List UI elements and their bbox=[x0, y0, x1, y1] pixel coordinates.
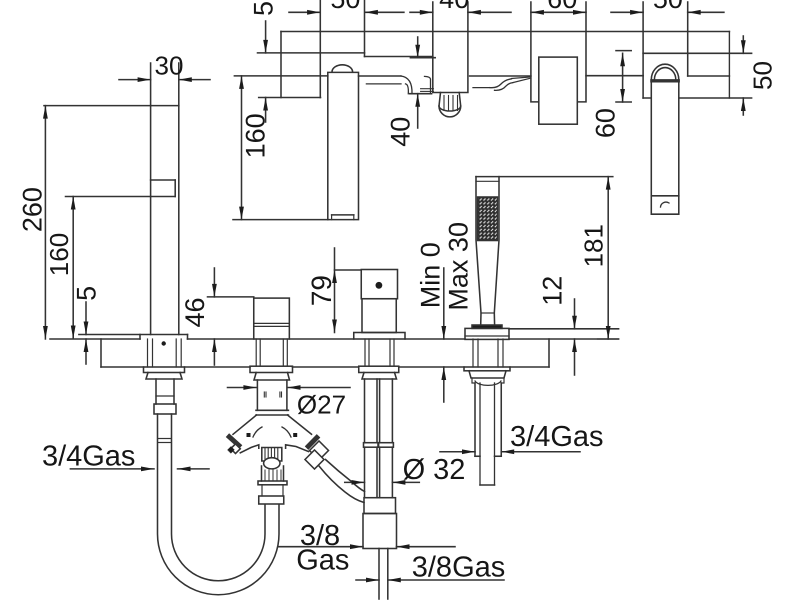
left outlet nub bbox=[228, 446, 235, 453]
comp2 escutcheon below deck bbox=[255, 339, 257, 366]
46 dim bbox=[208, 296, 254, 298]
comp3 valve body bbox=[364, 498, 396, 514]
svg-text:260: 260 bbox=[18, 187, 48, 232]
comp3 twin tubes bbox=[364, 379, 366, 443]
svg-text:50: 50 bbox=[330, 0, 360, 14]
svg-text:79: 79 bbox=[306, 275, 337, 306]
right 50 vertical dim bbox=[742, 36, 744, 53]
wall bar (top view) top edge bbox=[281, 31, 729, 33]
svg-text:40: 40 bbox=[386, 117, 416, 147]
svg-text:50: 50 bbox=[748, 61, 778, 90]
svg-text:50: 50 bbox=[249, 0, 279, 16]
mixer flange bbox=[354, 333, 405, 340]
comp3 tail bbox=[378, 549, 380, 600]
lever escutcheon (top view) bbox=[642, 2, 644, 98]
Min0/Max30 dim bbox=[443, 268, 445, 339]
left block bottom edge bbox=[259, 97, 321, 99]
diverter pull knob bbox=[439, 93, 461, 117]
spout tip notch bbox=[332, 214, 354, 216]
comp4 ear left bbox=[472, 378, 475, 383]
diverter block (top view) + ext lines up bbox=[433, 2, 468, 93]
svg-text:Max 30: Max 30 bbox=[444, 222, 474, 311]
bar front edge segments bbox=[234, 75, 327, 77]
svg-text:30: 30 bbox=[155, 51, 184, 81]
svg-text:3/8Gas: 3/8Gas bbox=[412, 552, 506, 584]
right wing face band bbox=[308, 438, 317, 447]
Y right union (angled) bbox=[310, 441, 329, 460]
Y outlet plate bbox=[258, 481, 287, 485]
260 dim bbox=[44, 105, 151, 107]
deck right edge bbox=[548, 339, 550, 367]
bar inner line left bbox=[258, 52, 365, 54]
181 dim bbox=[598, 338, 619, 340]
40 vertical dim (diverter) bbox=[410, 57, 435, 59]
lever hook mark bbox=[661, 202, 670, 207]
deck bottom edge bbox=[101, 366, 144, 368]
ext line flange top bbox=[509, 328, 619, 330]
30 dim bbox=[119, 79, 151, 81]
svg-text:46: 46 bbox=[180, 297, 210, 327]
hose U spout supply inner bbox=[172, 414, 266, 581]
svg-text:40: 40 bbox=[439, 0, 469, 14]
comp4 nut bbox=[464, 367, 510, 371]
top dim row: 60 bbox=[531, 11, 586, 13]
spout side lever (top view) bbox=[366, 83, 401, 85]
spray face bbox=[478, 197, 498, 241]
comp3 shank below deck bbox=[364, 339, 366, 366]
Y center knurled outlet bbox=[262, 448, 282, 462]
comp2 nut bbox=[250, 366, 293, 372]
spout shank below deck bbox=[147, 339, 149, 367]
spout aerator window bbox=[151, 179, 176, 181]
wand cap line bbox=[476, 180, 499, 182]
wall bar right edge bbox=[728, 32, 730, 99]
spout column bbox=[150, 63, 152, 335]
lever end cap line bbox=[651, 195, 679, 197]
wand end cap bbox=[472, 325, 502, 328]
comp3 nut bbox=[359, 366, 399, 372]
hose U spout supply outer bbox=[158, 414, 280, 595]
stepped inner line bbox=[365, 56, 433, 58]
comp3 taper nut bbox=[362, 373, 397, 380]
comp4 taper nut bbox=[469, 371, 506, 378]
60 vertical dim (handle) bbox=[616, 50, 631, 52]
mixer lever (top view pointer) bbox=[473, 87, 490, 89]
5 dim bbox=[85, 302, 87, 335]
svg-text:181: 181 bbox=[579, 224, 609, 267]
svg-text:60: 60 bbox=[591, 108, 621, 138]
lever cap base bbox=[652, 79, 678, 82]
160 dim front bbox=[66, 196, 151, 198]
top-view 160 dim bbox=[233, 219, 328, 221]
wand grip line bbox=[481, 312, 494, 314]
svg-text:50: 50 bbox=[653, 0, 683, 14]
left outlet square bbox=[231, 444, 241, 454]
Y inner curves and dots bbox=[253, 427, 262, 437]
mixer handle block (top view) + ext lines up bbox=[531, 2, 586, 102]
hose crimp band bbox=[158, 438, 171, 440]
svg-text:Ø 32: Ø 32 bbox=[403, 454, 466, 486]
spout tail nut bbox=[146, 373, 182, 380]
mixer body block bbox=[362, 299, 396, 333]
svg-text:3/4Gas: 3/4Gas bbox=[42, 441, 136, 473]
top dim row: 50 bbox=[289, 11, 320, 13]
deck left edge bbox=[100, 339, 102, 367]
step edge / ext bbox=[364, 0, 366, 57]
spout tip bump bbox=[332, 65, 353, 72]
wall bar left edge bbox=[280, 32, 282, 98]
Y connector neck bbox=[256, 380, 258, 410]
deck screw dot bbox=[162, 341, 166, 345]
svg-text:Ø27: Ø27 bbox=[297, 390, 346, 420]
svg-text:60: 60 bbox=[547, 0, 577, 14]
79 dim bbox=[335, 269, 362, 271]
mixer handle block (comp3 front) bbox=[361, 270, 397, 299]
comp4 ear right bbox=[501, 378, 504, 383]
comp4 nut bottom arc bbox=[475, 381, 501, 385]
top dim row: 50 (2nd) bbox=[611, 11, 643, 13]
Y hose collar bbox=[259, 496, 284, 504]
Y connector right wing bbox=[288, 415, 312, 434]
diverter knob front (comp2) bbox=[254, 298, 290, 339]
svg-text:5: 5 bbox=[72, 286, 102, 301]
ext line for 2nd top 50 dim bbox=[687, 2, 689, 76]
svg-text:160: 160 bbox=[44, 233, 74, 276]
12 dim bbox=[574, 299, 576, 329]
spout tube band bbox=[156, 395, 174, 397]
mixer handle body top view bbox=[539, 57, 578, 124]
spout hose collar bbox=[154, 404, 176, 414]
hose Y to mixer valve bbox=[319, 466, 364, 503]
top dim row: 40 bbox=[410, 11, 433, 13]
left 50 vertical dim bbox=[265, 21, 267, 53]
Y connector collar bbox=[256, 409, 288, 411]
left wing face band bbox=[229, 437, 239, 446]
comp2 taper nut bbox=[254, 373, 290, 381]
svg-text:Gas: Gas bbox=[296, 545, 349, 577]
spout lock nut bbox=[144, 367, 185, 373]
spout (top view) bbox=[328, 72, 359, 219]
svg-text:Min 0: Min 0 bbox=[416, 242, 446, 308]
spout flange bbox=[79, 334, 188, 336]
lever body fill bbox=[651, 64, 679, 214]
lever cap inner arc bbox=[654, 68, 675, 80]
left block right edge / ext bbox=[319, 0, 321, 98]
deck plate top edge bbox=[50, 338, 140, 340]
Y connector left wing bbox=[233, 415, 257, 434]
Ø27 dim bbox=[228, 387, 257, 389]
hand shower wand bbox=[476, 176, 613, 178]
shower holder flange bbox=[465, 328, 509, 339]
svg-text:3/4Gas: 3/4Gas bbox=[510, 421, 604, 453]
holder below deck bbox=[472, 339, 474, 367]
svg-text:12: 12 bbox=[538, 276, 568, 306]
